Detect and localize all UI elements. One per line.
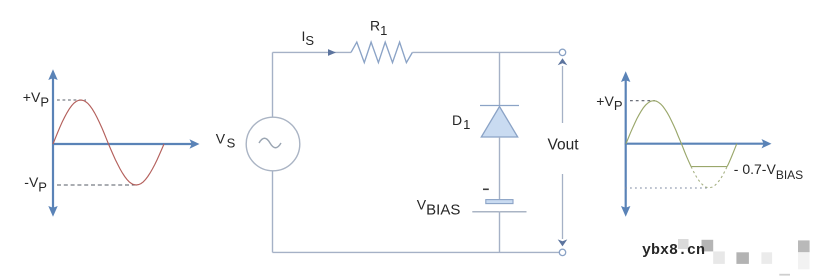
input waveform vertical axis	[48, 69, 57, 216]
watermark gray block 4	[761, 252, 772, 264]
input sine wave	[53, 100, 164, 185]
svg-text:ybx8.cn: ybx8.cn	[642, 242, 705, 259]
watermark gray block 3	[736, 252, 749, 264]
source Vs circle	[246, 117, 300, 171]
wire: left branch upper	[272, 52, 274, 117]
terminal: top right open circle	[559, 49, 565, 55]
watermark faint strip bottom right	[779, 274, 790, 276]
svg-text:IS: IS	[302, 28, 315, 48]
source sine symbol	[259, 138, 281, 148]
diode D1 triangle	[481, 107, 517, 138]
wire: circuit bottom rail	[273, 251, 560, 253]
output sine wave solid rising part	[626, 101, 691, 167]
battery Vbias bottom plate	[472, 211, 526, 213]
resistor R1	[351, 42, 412, 63]
battery Vbias top plate	[486, 200, 513, 204]
svg-text:VS: VS	[216, 130, 236, 150]
dashed level +Vp (output)	[630, 100, 655, 102]
output waveform vertical axis	[621, 71, 630, 216]
wire: left branch lower	[272, 171, 274, 253]
input waveform horizontal axis	[52, 139, 200, 148]
wire: circuit top right segment	[412, 51, 559, 53]
wire: diode to battery	[499, 137, 501, 199]
Vout measure arrow lower	[558, 174, 568, 246]
svg-text:+VP: +VP	[23, 89, 49, 109]
diode D1 cathode bar	[480, 105, 519, 107]
output clipped dashed sine	[691, 167, 727, 188]
Vout measure arrow upper	[558, 58, 568, 123]
output sine wave solid tail	[727, 144, 737, 167]
watermark gray block 1	[702, 240, 714, 252]
battery minus sign	[483, 189, 489, 191]
dashed level -Vp (input)	[57, 184, 136, 186]
svg-text:VBIAS: VBIAS	[417, 197, 461, 219]
watermark gray block 2	[713, 251, 725, 264]
wire: circuit top left segment	[273, 51, 352, 53]
current arrow Is	[328, 49, 336, 56]
output clipped flat segment	[691, 166, 727, 168]
svg-text:+VP: +VP	[596, 93, 622, 113]
svg-text:Vout: Vout	[548, 137, 580, 154]
svg-text:- 0.7-VBIAS: - 0.7-VBIAS	[734, 161, 803, 182]
watermark faint column under block 5	[798, 252, 810, 269]
svg-text:-VP: -VP	[24, 174, 47, 194]
dashed level -Vp (output)	[625, 187, 709, 189]
terminal: bottom right open circle	[559, 249, 565, 255]
wire: battery to bottom rail	[499, 212, 501, 253]
watermark gray block 5	[798, 240, 810, 252]
svg-text:D1: D1	[452, 112, 470, 132]
svg-text:R1: R1	[370, 18, 387, 38]
wire: diode branch top	[499, 52, 501, 105]
output waveform horizontal axis	[625, 139, 772, 148]
watermark light block behind text	[678, 239, 689, 249]
dashed level +Vp (input)	[57, 99, 86, 101]
